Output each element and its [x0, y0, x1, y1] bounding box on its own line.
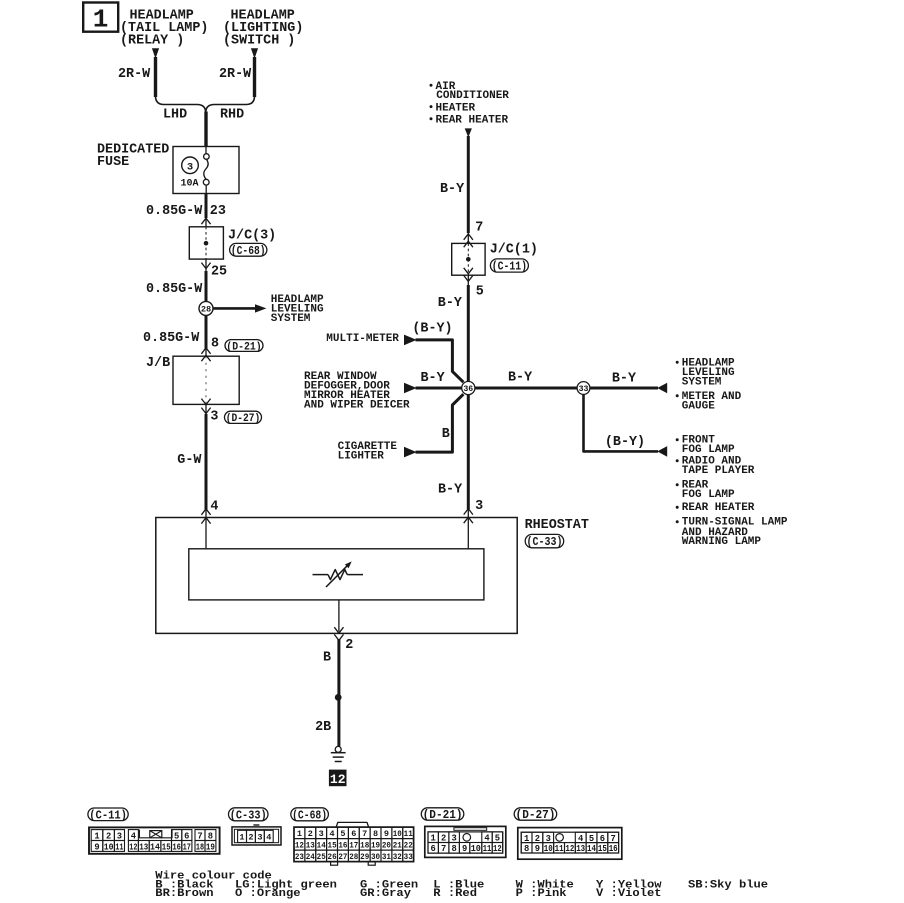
svg-text:23: 23: [210, 204, 226, 219]
svg-text:1: 1: [297, 829, 302, 839]
connector ref D-27: [225, 411, 262, 423]
svg-text:26: 26: [328, 852, 337, 862]
connector label D-21: [421, 808, 464, 820]
wire 2R-W right: [253, 57, 256, 97]
svg-text:B: B: [323, 651, 331, 666]
svg-text:B-Y: B-Y: [421, 371, 446, 386]
branch arrow from defogger: [404, 383, 417, 394]
merge brace LHD/RHD: [156, 96, 206, 113]
svg-text:14: 14: [317, 841, 326, 851]
svg-text:8: 8: [211, 337, 219, 352]
svg-text:B-Y: B-Y: [438, 482, 463, 497]
wire B-Y node33 to right: [590, 387, 658, 390]
svg-text:11: 11: [404, 829, 413, 839]
label AIR CONDITIONER / HEATER / REAR HEATER: [430, 84, 433, 87]
svg-text:2: 2: [248, 833, 253, 843]
svg-text:3: 3: [475, 499, 483, 514]
svg-text:GAUGE: GAUGE: [682, 401, 715, 413]
svg-text:15: 15: [328, 841, 337, 851]
svg-text:(D-21): (D-21): [226, 341, 261, 353]
svg-text:8: 8: [524, 844, 529, 854]
svg-text:(B-Y): (B-Y): [412, 322, 452, 337]
svg-text:28: 28: [349, 852, 358, 862]
branch arrow from cigarette lighter: [404, 447, 417, 458]
svg-text:0.85G-W: 0.85G-W: [146, 204, 203, 219]
svg-text:(D-21): (D-21): [423, 808, 463, 822]
svg-text:B: B: [442, 427, 450, 442]
fuse number circle 3: [182, 157, 199, 174]
svg-text:(C-33): (C-33): [527, 536, 563, 549]
chevron out of J/C(3): [201, 263, 210, 269]
svg-text:(B-Y): (B-Y): [605, 435, 645, 450]
svg-text:6: 6: [351, 829, 356, 839]
offpage arrow to front fog lamp etc: [657, 446, 667, 457]
svg-text:B-Y: B-Y: [440, 182, 465, 197]
svg-text:(C-33): (C-33): [230, 809, 267, 823]
svg-text:SYSTEM: SYSTEM: [271, 313, 311, 325]
svg-text:9: 9: [384, 829, 389, 839]
source arrow from lighting switch: [251, 48, 258, 58]
svg-text:3: 3: [319, 829, 324, 839]
chevrons out of J/B: [201, 399, 210, 405]
wire into J/C(1): [467, 233, 469, 243]
connector label C-11: [88, 808, 128, 821]
label HEADLAMP LEVELING SYSTEM / METER AND GAUGE: [676, 361, 679, 364]
svg-text:B-Y: B-Y: [612, 371, 637, 386]
svg-text:36: 36: [463, 385, 473, 394]
ground symbol: [335, 746, 341, 752]
wire 0.85G-W pin23: [205, 194, 208, 219]
junction block J/B: [173, 356, 239, 404]
node 36 splice: [462, 381, 475, 394]
svg-text:P :Pink: P :Pink: [516, 888, 568, 900]
wire B to ground: [337, 639, 340, 746]
svg-text:1: 1: [93, 5, 109, 35]
wire rheostat wiper out: [338, 600, 340, 632]
ground ref 12: [329, 770, 347, 787]
dedicated fuse box: [173, 147, 239, 194]
chevrons into J/B: [201, 348, 210, 354]
arrow to headlamp leveling system: [213, 307, 256, 310]
svg-text:2: 2: [106, 831, 111, 841]
chevrons out of J/C(1): [464, 268, 473, 274]
svg-text:24: 24: [306, 852, 315, 862]
svg-text:8: 8: [208, 831, 213, 841]
svg-text:(SWITCH ): (SWITCH ): [223, 34, 295, 49]
svg-text:CONDITIONER: CONDITIONER: [436, 90, 509, 102]
connector label D-27: [514, 808, 557, 820]
node 28 splice: [199, 301, 213, 315]
svg-text:2: 2: [308, 829, 313, 839]
connector ref C-11: [490, 259, 528, 272]
svg-text:(C-11): (C-11): [492, 261, 527, 274]
connector D-21 pinout: [425, 826, 506, 857]
svg-text:12: 12: [129, 842, 137, 852]
splice dot: [335, 694, 342, 701]
svg-text:5: 5: [340, 829, 345, 839]
chevrons into rheostat pin3: [464, 509, 473, 515]
wire B-Y upper: [467, 136, 470, 233]
svg-text:FOG LAMP: FOG LAMP: [682, 444, 735, 456]
svg-text:3: 3: [257, 833, 262, 843]
svg-text:B-Y: B-Y: [508, 371, 533, 386]
svg-text:2R-W: 2R-W: [219, 67, 252, 82]
svg-text:V :Violet: V :Violet: [596, 888, 662, 900]
svg-text:0.85G-W: 0.85G-W: [143, 331, 200, 346]
wire into J/B: [205, 350, 207, 357]
connector ref C-33: [525, 534, 564, 547]
svg-text:11: 11: [483, 844, 492, 854]
svg-text:3: 3: [210, 409, 218, 424]
rheostat element: [313, 574, 329, 576]
svg-text:25: 25: [211, 265, 227, 280]
svg-text:10: 10: [544, 844, 553, 854]
svg-text:SYSTEM: SYSTEM: [682, 377, 722, 389]
chevrons out of rheostat pin2: [334, 627, 343, 633]
svg-text:9: 9: [94, 842, 99, 852]
svg-text:10A: 10A: [181, 179, 199, 190]
svg-text:7: 7: [362, 829, 367, 839]
svg-text:5: 5: [476, 285, 484, 300]
svg-text:4: 4: [330, 829, 335, 839]
wire into J/C(3): [205, 218, 207, 227]
svg-text:5: 5: [174, 831, 179, 841]
svg-text:9: 9: [462, 844, 467, 854]
svg-text:(D-27): (D-27): [516, 808, 556, 822]
wire 0.85G-W to node 28: [205, 259, 207, 272]
svg-text:3: 3: [187, 161, 193, 173]
svg-text:(C-68): (C-68): [231, 245, 266, 258]
svg-text:21: 21: [393, 841, 402, 851]
svg-text:HEATER: HEATER: [436, 102, 476, 114]
svg-text:14: 14: [150, 842, 161, 852]
label FRONT FOG LAMP / RADIO / REAR FOG LAMP / REAR HEATER / TURN-SIGNAL: [676, 438, 679, 441]
connector label C-33: [229, 808, 269, 821]
svg-text:WARNING LAMP: WARNING LAMP: [682, 536, 762, 548]
svg-text:LIGHTER: LIGHTER: [338, 451, 385, 463]
svg-text:32: 32: [393, 852, 402, 862]
svg-text:12: 12: [565, 844, 574, 854]
svg-text:33: 33: [579, 385, 589, 394]
svg-text:12: 12: [330, 772, 346, 787]
svg-text:17: 17: [349, 841, 358, 851]
rheostat inner box: [189, 549, 484, 600]
svg-text:8: 8: [373, 829, 378, 839]
svg-text:12: 12: [493, 844, 502, 854]
svg-text:O :Orange: O :Orange: [235, 888, 301, 900]
svg-text:SB:Sky blue: SB:Sky blue: [688, 880, 768, 892]
svg-text:LHD: LHD: [163, 108, 187, 123]
wire G-W to rheostat: [205, 404, 207, 415]
svg-text:2R-W: 2R-W: [118, 67, 151, 82]
svg-text:1: 1: [239, 833, 244, 843]
wire pin3 inside rheostat: [467, 509, 469, 549]
svg-text:22: 22: [404, 841, 413, 851]
svg-text:13: 13: [306, 841, 315, 851]
junction connector J/C(3) C-68: [189, 227, 223, 259]
wire pin4 inside rheostat: [205, 510, 207, 549]
svg-text:7: 7: [197, 831, 202, 841]
svg-text:(D-27): (D-27): [226, 413, 260, 425]
wire 0.85G-W to J/B: [205, 315, 208, 349]
svg-text:14: 14: [587, 844, 597, 854]
chevrons into J/C(1): [464, 234, 473, 240]
svg-text:7: 7: [475, 221, 483, 236]
svg-text:3: 3: [117, 831, 122, 841]
svg-text:16: 16: [609, 844, 618, 854]
connector D-27 pinout: [518, 828, 622, 860]
svg-text:31: 31: [382, 852, 391, 862]
svg-text:15: 15: [162, 842, 171, 852]
svg-text:7: 7: [441, 844, 446, 854]
svg-text:GR:Gray: GR:Gray: [360, 888, 412, 900]
wire to dedicated fuse: [204, 112, 207, 148]
svg-text:0.85G-W: 0.85G-W: [146, 282, 203, 297]
svg-text:13: 13: [139, 842, 148, 852]
svg-text:AND WIPER DEICER: AND WIPER DEICER: [304, 400, 410, 412]
svg-text:18: 18: [196, 842, 204, 852]
svg-text:4: 4: [210, 500, 218, 515]
svg-text:6: 6: [184, 831, 189, 841]
svg-text:12: 12: [295, 841, 304, 851]
svg-text:23: 23: [295, 852, 304, 862]
connector ref D-21: [225, 340, 263, 352]
svg-text:1: 1: [94, 831, 99, 841]
connector label C-68: [291, 808, 329, 821]
connector C-33 pinout: [232, 827, 281, 845]
rheostat outer box C-33: [156, 518, 517, 634]
svg-text:G-W: G-W: [177, 453, 202, 468]
svg-text:(RELAY ): (RELAY ): [120, 34, 184, 49]
wire B-Y node36 to node33: [475, 387, 577, 390]
svg-text:10: 10: [393, 829, 402, 839]
svg-text:18: 18: [360, 841, 369, 851]
svg-text:4: 4: [131, 831, 137, 841]
wire cigarette lighter to node 36: [416, 394, 464, 452]
svg-text:REAR HEATER: REAR HEATER: [436, 115, 509, 127]
svg-text:B-Y: B-Y: [438, 296, 463, 311]
branch arrow from multi-meter: [404, 335, 417, 346]
svg-text:29: 29: [360, 852, 369, 862]
svg-text:MULTI-METER: MULTI-METER: [326, 333, 399, 345]
svg-text:FUSE: FUSE: [97, 155, 129, 170]
svg-text:20: 20: [382, 841, 391, 851]
junction connector J/C(1) C-11: [452, 243, 485, 275]
svg-text:11: 11: [115, 842, 123, 852]
chevrons into rheostat pin4: [201, 509, 210, 515]
connector C-68 pinout: [336, 822, 368, 827]
svg-text:10: 10: [104, 842, 114, 852]
svg-text:10: 10: [471, 844, 481, 854]
page number box 1: [83, 3, 118, 32]
svg-text:6: 6: [431, 844, 436, 854]
svg-text:19: 19: [206, 842, 215, 852]
svg-text:16: 16: [338, 841, 347, 851]
fuse element: [205, 147, 207, 154]
wire (B-Y) branch from node 33: [584, 394, 659, 451]
svg-text:2: 2: [345, 638, 353, 653]
svg-text:(C-11): (C-11): [89, 809, 127, 823]
wire defogger to node 36: [416, 387, 463, 390]
chevron into J/C(3): [201, 218, 210, 224]
source arrow from tail lamp relay: [152, 48, 159, 58]
svg-text:15: 15: [598, 844, 607, 854]
svg-text:33: 33: [404, 852, 413, 862]
svg-text:25: 25: [317, 852, 326, 862]
svg-text:17: 17: [183, 842, 191, 852]
svg-text:(C-68): (C-68): [292, 809, 327, 823]
svg-text:11: 11: [555, 844, 564, 854]
wire multi-meter to node 36: [416, 340, 464, 382]
svg-text:FOG LAMP: FOG LAMP: [682, 489, 735, 501]
svg-text:BR:Brown: BR:Brown: [155, 888, 213, 900]
svg-text:TAPE PLAYER: TAPE PLAYER: [682, 465, 755, 477]
svg-text:RHEOSTAT: RHEOSTAT: [525, 518, 589, 533]
svg-text:J/C(3): J/C(3): [228, 228, 276, 243]
svg-text:19: 19: [371, 841, 380, 851]
svg-text:4: 4: [266, 833, 271, 843]
svg-text:13: 13: [576, 844, 585, 854]
svg-text:R :Red: R :Red: [433, 888, 477, 900]
connector C-11 pinout: [89, 827, 220, 853]
svg-text:J/C(1): J/C(1): [490, 243, 538, 258]
wire 2R-W left: [154, 57, 157, 97]
svg-text:J/B: J/B: [146, 356, 170, 371]
svg-text:16: 16: [172, 842, 181, 852]
svg-text:9: 9: [535, 844, 540, 854]
wire B-Y node36 to rheostat pin3: [467, 394, 470, 509]
connector ref C-68: [230, 243, 267, 256]
source arrow from A/C-heater: [465, 128, 472, 137]
svg-text:27: 27: [338, 852, 347, 862]
svg-text:30: 30: [371, 852, 380, 862]
wire B-Y to node 36: [467, 275, 469, 286]
svg-text:8: 8: [451, 844, 456, 854]
svg-text:2B: 2B: [315, 720, 331, 735]
node 33 splice: [577, 382, 590, 395]
svg-text:REAR HEATER: REAR HEATER: [682, 502, 755, 514]
svg-text:28: 28: [201, 305, 211, 315]
svg-text:RHD: RHD: [220, 108, 244, 123]
offpage arrow to headlamp leveling/meter: [657, 383, 667, 394]
